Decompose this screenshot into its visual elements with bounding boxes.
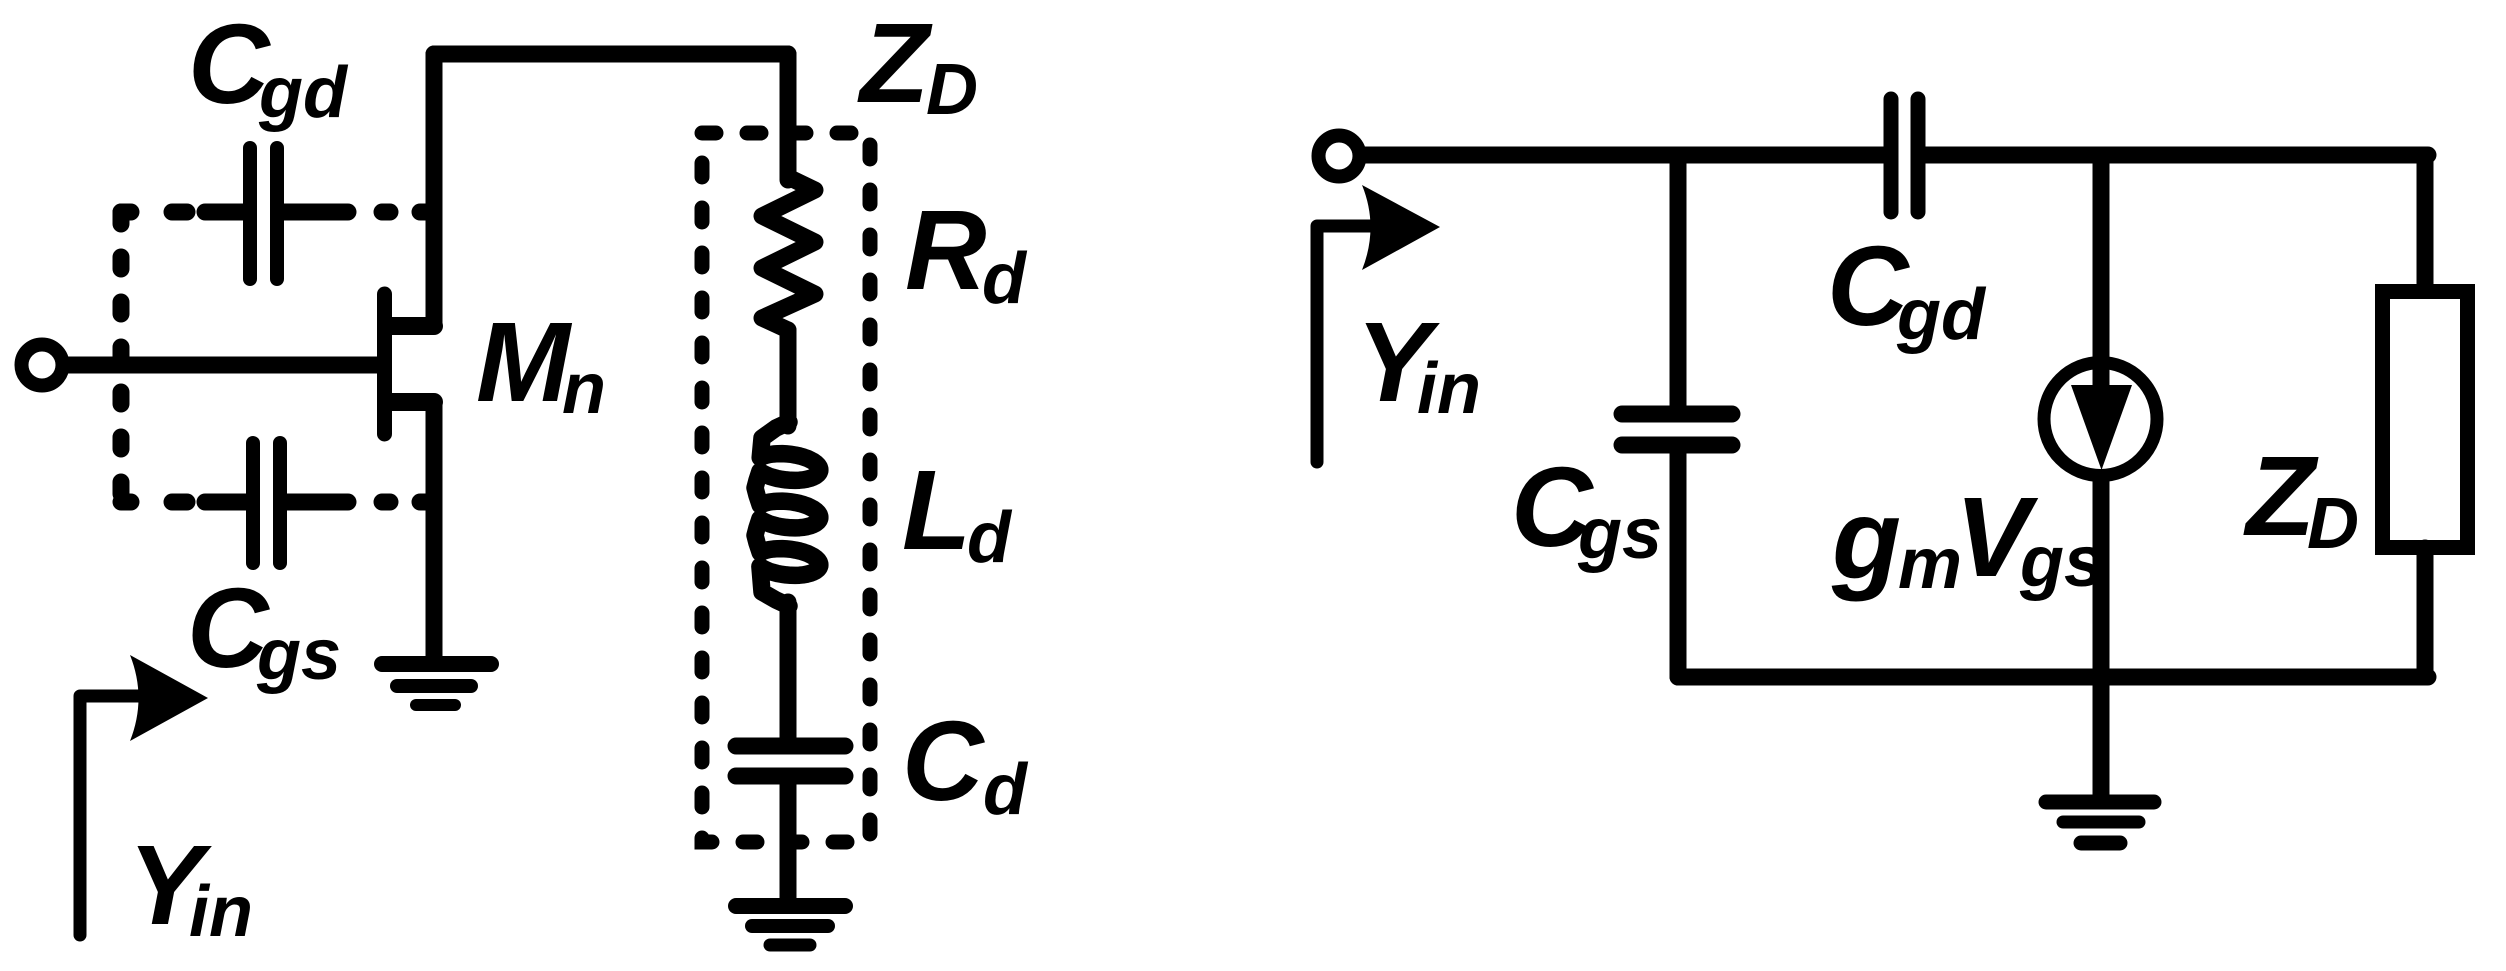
impedance box ZD dashed (left) <box>702 133 870 842</box>
svg-text:gd: gd <box>258 53 349 133</box>
svg-text:gs: gs <box>256 615 341 695</box>
svg-text:n: n <box>562 349 606 429</box>
label gmVgs <box>1831 474 2104 604</box>
label Cgd (right) <box>1827 223 1987 355</box>
wire Cd to ground <box>780 776 797 902</box>
capacitor Cgd (right) <box>1891 99 1918 212</box>
arrow Yin (right) <box>1317 185 1440 462</box>
wire ZD top lead <box>2417 157 2434 292</box>
svg-text:D: D <box>926 50 978 130</box>
resistor Rd <box>762 172 815 336</box>
svg-text:in: in <box>189 872 253 952</box>
svg-text:M: M <box>476 299 573 425</box>
capacitor Cgs (left, dashed branch) <box>205 443 348 563</box>
current source gmVgs <box>2044 363 2157 476</box>
wire drain vertical <box>426 54 443 326</box>
capacitor Cd <box>736 746 845 776</box>
wire ZD bottom lead <box>2417 548 2434 677</box>
svg-text:Z: Z <box>857 0 933 126</box>
wire top right segment <box>1925 147 2428 164</box>
svg-text:m: m <box>1898 524 1962 604</box>
label ZD (left) <box>857 0 978 130</box>
svg-text:R: R <box>905 187 987 313</box>
svg-text:gs: gs <box>2019 522 2104 602</box>
inductor Ld <box>755 422 820 606</box>
ground (drain branch bottom) <box>736 906 845 945</box>
label ZD (right) <box>2243 433 2359 564</box>
wire inductor to Cd <box>780 602 797 742</box>
wire current source upper <box>2093 155 2110 388</box>
dashed wire Cgs right lead <box>382 494 428 511</box>
svg-text:d: d <box>967 498 1013 578</box>
svg-text:in: in <box>1417 349 1481 429</box>
label Yin (right) <box>1356 299 1481 429</box>
wire top left segment <box>1362 147 1884 164</box>
label Cgd (left) <box>188 1 349 133</box>
dashed wire Cgs left lead <box>121 494 187 511</box>
wire resistor to inductor <box>780 330 797 426</box>
ground (right) <box>2046 802 2154 843</box>
svg-text:g: g <box>1831 476 1901 602</box>
label Cd <box>902 698 1029 830</box>
capacitor Cgd (left, dashed branch) <box>205 148 348 279</box>
wire current source lower <box>2093 470 2110 798</box>
label Ld <box>902 447 1013 578</box>
svg-text:d: d <box>983 750 1029 830</box>
ground (source of Mn) <box>382 664 491 705</box>
capacitor Cgs (right) <box>1622 414 1732 445</box>
svg-text:D: D <box>2307 484 2359 564</box>
label Rd <box>905 187 1028 319</box>
arrow Yin (left) <box>80 655 208 935</box>
svg-text:L: L <box>902 447 971 573</box>
svg-text:C: C <box>902 698 985 824</box>
impedance ZD box (right) <box>2383 292 2468 548</box>
input terminal (left port) <box>22 345 63 386</box>
wire bottom <box>1678 669 2428 686</box>
svg-text:d: d <box>982 239 1028 319</box>
dashed wire gate node vertical <box>113 212 130 502</box>
transistor Mn <box>385 294 435 434</box>
label Mn <box>476 299 606 429</box>
svg-text:gs: gs <box>1577 494 1662 574</box>
wire source vertical <box>426 402 443 660</box>
wire Cgs branch lower <box>1670 445 1687 677</box>
dashed wire Cgd left lead <box>121 204 187 221</box>
label Yin (left) <box>128 822 253 952</box>
wire gate lead <box>64 357 390 374</box>
wire top (drain to ZD) <box>434 46 788 63</box>
label Cgs (right) <box>1511 444 1662 574</box>
wire Cgs branch upper <box>1670 155 1687 408</box>
wire ZD branch drop <box>780 54 797 180</box>
svg-text:gd: gd <box>1896 275 1987 355</box>
dashed wire Cgd right lead <box>382 204 428 221</box>
label Cgs (left) <box>187 565 341 695</box>
input terminal (right port) <box>1319 136 1360 177</box>
